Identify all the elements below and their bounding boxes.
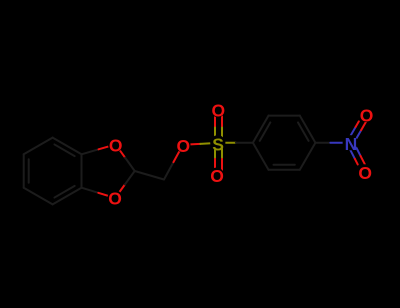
wire bond C3a-O3 red half: [98, 193, 115, 198]
svg-text:O: O: [109, 135, 123, 155]
wire bond C2-CH2: [135, 171, 164, 180]
node O1 halo: [108, 137, 123, 152]
wire benzene ring left: inner double line F-C7a: [54, 144, 74, 156]
svg-text:S: S: [212, 134, 224, 154]
wire bond CH2-O4 red half: [173, 145, 182, 162]
wire bond O1-C2 dark half: [125, 158, 135, 171]
wire bond O1-C2 red half: [116, 144, 126, 157]
svg-text:O: O: [176, 136, 190, 156]
wire benzene ring right: edge C3r-C4: [300, 116, 316, 143]
wire S=O5 double bond line b olive half: [221, 126, 223, 143]
wire bond C4-N dark half: [315, 142, 330, 144]
node O3 halo: [108, 190, 123, 205]
wire benzene ring right: inner double line C5-C6: [274, 164, 295, 166]
svg-text:O: O: [211, 101, 225, 121]
wire benzene ring right: edge C2r-C3r: [269, 115, 300, 117]
wire benzene ring left: edge F-C7a: [53, 138, 82, 155]
wire benzene ring left: inner double line C3a-C: [54, 186, 74, 198]
svg-text:O: O: [360, 106, 374, 126]
wire N=O8 double bond line a blue half: [347, 144, 354, 159]
wire N=O8 double bond line a red half: [355, 159, 358, 165]
wire benzene ring left: inner double line D-E: [28, 159, 30, 182]
wire bond S-C1 dark half: [236, 142, 253, 144]
wire N=O7 double bond line b red half: [356, 121, 359, 127]
wire benzene ring left: edge C-D: [24, 188, 53, 205]
wire S=O6 double bond line a red half: [214, 159, 216, 175]
svg-text:N: N: [345, 134, 358, 154]
wire S=O6 double bond line b red half: [221, 159, 223, 175]
wire bond CH2-O4 dark half: [164, 162, 173, 179]
node S halo: [210, 135, 225, 150]
wire N=O7 double bond line a blue half: [353, 130, 361, 144]
wire S=O6 double bond line b olive half: [221, 143, 223, 159]
wire bond O3-C2 dark half: [125, 171, 135, 185]
node O5 halo: [210, 102, 225, 117]
node N halo: [343, 135, 358, 150]
wire benzene ring left: edge E-F: [24, 138, 53, 155]
wire benzene ring right: edge C4-C5: [300, 143, 316, 170]
wire benzene ring right: edge C1-C2r: [253, 116, 269, 143]
wire N=O8 double bond line b red half: [361, 156, 368, 171]
wire benzene ring right: edge C5-C6: [269, 169, 300, 171]
wire S=O5 double bond line a olive half: [214, 126, 216, 143]
wire benzene ring right: inner double line C3r-C4: [298, 122, 309, 140]
wire benzene ring left: edge D-E: [23, 154, 25, 187]
wire benzene ring left: edge C3a-C: [53, 188, 82, 205]
node O7 halo: [359, 107, 374, 122]
wire bond C7a-O1 dark half: [82, 149, 99, 154]
wire bond C3a-O3 dark half: [82, 188, 99, 193]
svg-text:O: O: [108, 189, 122, 209]
wire benzene ring right: edge C6-C1: [253, 143, 269, 170]
wire N=O8 double bond line b blue half: [353, 141, 360, 156]
wire S=O5 double bond line a red half: [214, 109, 216, 126]
svg-text:O: O: [358, 163, 372, 183]
wire N=O7 double bond line a red half: [361, 116, 369, 130]
wire benzene ring right: inner double line C1-C2r: [260, 122, 271, 140]
wire S=O5 double bond line b red half: [221, 109, 223, 126]
wire bond O4-S olive half: [200, 142, 217, 145]
wire bond O4-S red half: [183, 143, 200, 146]
wire bond C7a-O1 red half: [99, 144, 116, 149]
wire S=O6 double bond line a olive half: [214, 143, 216, 159]
wire bond O3-C2 red half: [115, 185, 125, 199]
wire N=O7 double bond line b blue half: [347, 127, 355, 141]
node O4 halo: [175, 137, 190, 152]
wire benzene ring left: edge C7a-C3a (fusion): [81, 154, 83, 187]
wire bond S-C1 olive half: [218, 142, 236, 144]
node O6 halo: [209, 168, 224, 183]
wire bond C4-N blue half: [330, 142, 350, 144]
node O8 halo: [358, 164, 373, 179]
svg-text:O: O: [210, 166, 224, 186]
